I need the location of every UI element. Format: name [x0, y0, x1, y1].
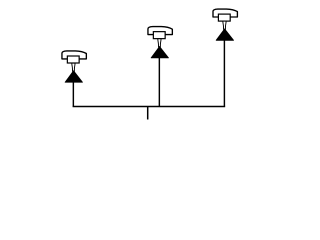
body triangle S3	[216, 29, 233, 40]
frame boss S1	[67, 56, 79, 63]
body triangle S1	[65, 71, 82, 82]
sprinkler head S1	[62, 51, 86, 82]
wire: drop from sprinkler S2 to branch line	[158, 57, 160, 106]
sprinkler head S3	[213, 9, 237, 40]
deflector cap S3	[213, 9, 237, 17]
wire: drop from sprinkler S1 to branch line	[72, 81, 74, 106]
frame boss S2	[153, 32, 165, 39]
wire: drop from sprinkler S3 to branch line	[223, 40, 225, 107]
wire: branch pipe line	[73, 106, 226, 108]
body triangle S2	[151, 46, 168, 57]
nozzle neck S3	[223, 21, 226, 29]
wire: riser stub below branch line	[147, 107, 149, 120]
deflector cap S1	[62, 51, 86, 59]
deflector cap S2	[148, 27, 172, 35]
sprinkler head S2	[148, 27, 172, 58]
frame boss S3	[218, 14, 230, 21]
nozzle neck S2	[158, 39, 161, 47]
nozzle neck S1	[72, 63, 75, 71]
